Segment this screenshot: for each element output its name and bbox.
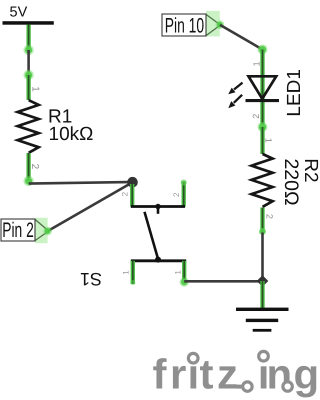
svg-text:g: g: [294, 351, 320, 398]
svg-text:1: 1: [264, 138, 274, 143]
resistor R1 10k: [18, 75, 94, 186]
pin top-left (2): [130, 184, 134, 207]
svg-text:1: 1: [30, 86, 41, 92]
svg-text:1: 1: [251, 61, 261, 66]
svg-text:2: 2: [172, 192, 181, 197]
wire 5V to R1: [23, 45, 33, 80]
pin 1 of LED: [260, 50, 264, 128]
svg-text:1: 1: [174, 270, 183, 275]
pin 1 of R2: [260, 127, 264, 154]
center post on top bar: [155, 204, 160, 209]
svg-text:LED1: LED1: [284, 69, 305, 117]
pin bottom-right (1): [182, 261, 186, 283]
net label Pin 2: [1, 218, 52, 243]
pin top-right (2): [182, 182, 186, 207]
pushbutton S1: [80, 180, 189, 290]
wire junction A to Pin 2: [48, 182, 133, 231]
svg-text:Pin 10: Pin 10: [165, 14, 204, 37]
svg-text:Pin 2: Pin 2: [2, 219, 34, 242]
pin 2 of R1: [26, 153, 30, 182]
bottom contact bar: [131, 259, 186, 262]
zigzag body of R2: [252, 154, 273, 207]
junction B: [257, 275, 269, 287]
resistor R2 220 ohm: [252, 127, 320, 235]
node between LED and R2: [258, 122, 268, 132]
emission arrow 2: [228, 95, 242, 108]
svg-text:2: 2: [120, 191, 129, 196]
svg-text:1: 1: [122, 270, 131, 275]
svg-text:220Ω: 220Ω: [280, 158, 302, 205]
pin 2 of R2: [260, 208, 264, 233]
svg-text:2: 2: [29, 164, 40, 170]
actuator lever: [145, 212, 159, 259]
ground: [236, 281, 289, 332]
svg-text:2: 2: [265, 214, 275, 219]
wire R1 to junction A: [29, 182, 133, 184]
power symbol 5V: [3, 5, 54, 51]
svg-text:z: z: [217, 351, 238, 398]
net label Pin 10: [162, 11, 224, 37]
fritzing logo: [153, 351, 320, 398]
svg-text:r: r: [170, 351, 186, 398]
svg-text:5V: 5V: [10, 5, 28, 21]
wire S1 to junction B: [184, 280, 262, 283]
svg-text:2: 2: [251, 114, 261, 119]
junction A: [127, 177, 138, 188]
svg-text:S1: S1: [80, 269, 102, 289]
top contact bar: [131, 205, 185, 208]
triangle anode: [249, 76, 277, 99]
wire R2 to junction B: [261, 233, 264, 282]
svg-text:t: t: [200, 351, 214, 398]
pin 1 of R1: [26, 75, 30, 100]
cathode bar: [246, 99, 280, 102]
svg-text:10kΩ: 10kΩ: [49, 124, 94, 145]
emission arrow 1: [228, 83, 242, 95]
svg-text:f: f: [153, 351, 168, 398]
wire Pin 10 to LED: [220, 25, 268, 55]
pin bottom-left (1): [131, 261, 135, 284]
LED LED1: [228, 50, 305, 128]
zigzag body of R1: [18, 100, 39, 153]
